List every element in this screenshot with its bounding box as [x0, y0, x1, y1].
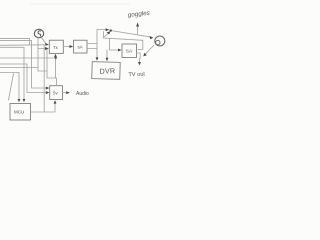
wire MCU out to 5v bottom	[31, 102, 55, 113]
arrow diag into junction	[107, 31, 111, 34]
wire junction to circle C2	[111, 31, 150, 37]
wire 5v audio out	[63, 92, 68, 94]
wire branch down to DVR second stub	[106, 50, 108, 61]
box DVR	[92, 62, 120, 80]
svg-text:DVR: DVR	[99, 66, 115, 76]
wire H y58	[0, 57, 56, 59]
wire H y40.6 with drop to 5v upper	[0, 41, 48, 88]
svg-text:Tx: Tx	[53, 45, 59, 50]
junction dot x56 y58	[55, 57, 57, 59]
svg-text:SA: SA	[126, 49, 133, 55]
circle C2 antenna	[155, 36, 165, 46]
wire vertical x97	[96, 30, 98, 58]
arrow TV out down	[138, 62, 141, 66]
wire H y67.5	[0, 67, 38, 69]
wire corner down from junction	[104, 32, 143, 50]
wire TV out drop	[139, 59, 141, 63]
wire C1 vertical down	[38, 38, 47, 71]
wire SA lower-right out	[137, 53, 141, 58]
svg-text:sA: sA	[78, 45, 83, 50]
box SA	[122, 44, 137, 58]
arrow DVR stub2 down	[106, 58, 109, 61]
junction dot	[110, 29, 112, 31]
arrow into MCU right stub	[23, 99, 26, 102]
wire goggles branch	[137, 26, 139, 34]
arrow top junction right	[106, 28, 110, 31]
faint top smudge	[30, 3, 130, 5]
arrow audio right	[66, 91, 70, 94]
wire diagonal to MCU corner	[9, 74, 14, 101]
wire H y71.5 with drop to MCU	[0, 73, 19, 100]
wire top run to junction	[97, 29, 106, 31]
arrow into 5v bottom	[54, 100, 57, 103]
wire diag into junction	[105, 33, 109, 37]
camera C1	[34, 29, 43, 37]
arrow into Tx upper	[45, 43, 49, 46]
box MCU	[10, 104, 31, 121]
wire x47 down	[47, 49, 57, 86]
wire vertical x44 down to MCU-out line	[43, 45, 45, 112]
box VTx/SA2	[74, 40, 87, 53]
wire H y38.6	[0, 39, 30, 45]
wire box1 bottom feed	[55, 56, 57, 79]
arrow into 5v upper	[46, 87, 50, 90]
wire H y47.3 drop x24 to MCU	[0, 47, 24, 99]
wire H y64 with drop to 5v lower	[0, 64, 48, 93]
arrowheads	[18, 23, 154, 104]
svg-text:Audio: Audio	[76, 91, 89, 97]
wire box1 lower-left feed	[38, 48, 45, 50]
wire Tx out to box2	[63, 46, 70, 48]
svg-text:5v: 5v	[53, 90, 58, 95]
arrow DVR stub1 down	[96, 57, 99, 60]
box Tx	[49, 40, 63, 53]
arrow into C2	[150, 36, 154, 39]
wire diag from C2 to TV junction	[144, 45, 154, 55]
arrow into box2	[70, 45, 74, 48]
arrow goggles up	[136, 23, 139, 27]
box 5v	[50, 86, 63, 100]
svg-text:TV out: TV out	[128, 72, 145, 79]
arrow into Tx lower	[45, 47, 49, 50]
arrow into Tx bottom	[54, 54, 57, 57]
wire H y45 into Tx	[0, 44, 45, 47]
wire branch down to SA input	[110, 39, 120, 51]
arrow into 5v lower	[46, 91, 50, 94]
wire box2 lower out	[87, 48, 97, 50]
wire box2 upper out	[87, 43, 97, 45]
wire C1 to Tx box diagonal	[42, 38, 46, 44]
arrow into SA left	[118, 49, 122, 52]
arrow into MCU left stub	[18, 99, 21, 102]
svg-text:MCU: MCU	[14, 110, 24, 115]
arrow diag from C2	[143, 53, 147, 57]
